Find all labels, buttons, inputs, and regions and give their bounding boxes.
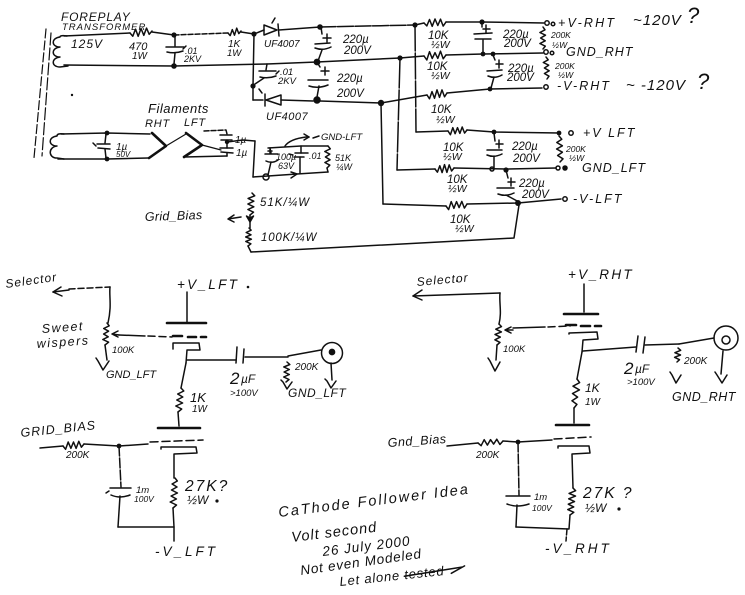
svg-text:2KV: 2KV: [183, 54, 202, 64]
node junction: [481, 52, 496, 57]
label +V_LFT: [177, 277, 239, 292]
svg-text:27K ?: 27K ?: [582, 485, 634, 502]
triode V4 cathode: [558, 446, 590, 488]
diode D2 UF4007: [253, 89, 313, 106]
wire row5: [397, 169, 435, 170]
resistor 1K 1W: [228, 28, 241, 35]
terminal -V_RHT: [544, 85, 548, 89]
svg-text:200K: 200K: [683, 356, 709, 367]
svg-text:1W: 1W: [227, 48, 242, 59]
svg-text:-V-LFT: -V-LFT: [573, 192, 623, 206]
svg-text:200V: 200V: [503, 38, 532, 50]
svg-text:UF4007: UF4007: [264, 39, 300, 50]
wire plate supply left: [186, 292, 188, 322]
wire cap centre tap to bias chain: [227, 140, 255, 142]
label GND-LFT: [321, 132, 363, 143]
capacitor 100u 63V: [265, 148, 278, 175]
resistor 51K 1/4W bias divider: [248, 193, 255, 215]
wire: [447, 88, 542, 93]
capacitor C3 .01 2KV lower: [255, 64, 279, 84]
capacitor C8 220u 200V row5: [497, 170, 519, 202]
label +V_RHT: [568, 267, 634, 282]
capacitor 1u heater top: [220, 135, 232, 148]
svg-text:½W: ½W: [431, 70, 451, 82]
triode V1 cathode: [173, 343, 200, 363]
label -V_LFT: [155, 544, 218, 559]
svg-text:½W: ½W: [187, 493, 210, 507]
resistor 200K 1/2W bleeder row1: [540, 27, 546, 49]
heater RHT chevron: [149, 133, 166, 158]
wire cluster bottom rail: [253, 172, 328, 178]
svg-text:100V: 100V: [532, 503, 553, 513]
capacitor C5 270u 200V row1: [474, 22, 492, 52]
resistor 51K quarter W cluster: [325, 146, 331, 172]
heater LFT chevron: [184, 133, 202, 157]
wire: [446, 53, 543, 55]
svg-text:½W: ½W: [443, 151, 463, 163]
label GND_LFT: [106, 369, 157, 381]
note Not even Modeled: [299, 546, 422, 578]
wire cathode to 1K right: [577, 352, 582, 379]
potentiometer 100K right: [495, 324, 502, 345]
label -V-LFT: [573, 192, 623, 206]
capacitor C2 220u 200V: [315, 27, 331, 61]
svg-text:+V_RHT: +V_RHT: [568, 267, 634, 282]
ground symbol 200K left: [281, 380, 292, 389]
svg-text:200K: 200K: [550, 30, 571, 40]
svg-text:100K: 100K: [112, 345, 135, 356]
node junction: [105, 157, 110, 162]
wire -V stub right: [566, 529, 567, 541]
label 220u 200V: [511, 141, 541, 165]
svg-text:Grid_Bias: Grid_Bias: [145, 208, 203, 224]
wire row4: [416, 131, 448, 132]
label .01: [309, 151, 322, 161]
label 10K 1/2W: [447, 174, 469, 195]
resistor 27K cathode right: [568, 488, 576, 515]
wire heater bottom: [58, 158, 148, 159]
label +V-RHT: [558, 16, 616, 30]
label 100u 63V: [276, 152, 296, 171]
note Volt second: [291, 520, 379, 546]
triode V1 grid: [173, 336, 206, 337]
svg-text:1K: 1K: [190, 390, 207, 405]
svg-text:1m: 1m: [534, 492, 547, 503]
label GND_RHT: [566, 45, 634, 59]
wire 1K to lower plate: [178, 412, 179, 426]
label Sweet wispers: [36, 319, 90, 351]
svg-text:200V: 200V: [336, 88, 365, 100]
resistor 200K 1/2W bleeder row4: [557, 136, 563, 162]
transformer T1 primary winding 125V: [53, 36, 68, 67]
svg-text:GND_RHT: GND_RHT: [566, 45, 634, 59]
wire + arrowhead bias tap: [247, 215, 254, 228]
wire pot to ground right: [496, 345, 497, 360]
wire junction to 1m cap: [119, 446, 121, 487]
label 1m 100V right: [532, 492, 553, 513]
label -V_RHT: [545, 541, 612, 556]
terminal -V_LFT: [563, 197, 567, 201]
capacitor 1u 50V filament: [93, 134, 110, 158]
triode V1 plate: [167, 322, 206, 325]
wire wiper to grid: [119, 335, 172, 337]
capacitor 1u heater bottom: [220, 148, 233, 156]
node junction: [488, 87, 493, 92]
wire cathode output left: [187, 359, 236, 361]
label GND_RHT output: [672, 390, 737, 404]
wire: [467, 130, 559, 133]
wire wiper to grid right: [513, 326, 570, 328]
node junction big: [378, 100, 384, 106]
triode V3 cathode: [569, 332, 598, 352]
wire: [320, 25, 415, 27]
svg-text:GND_LFT: GND_LFT: [106, 369, 157, 381]
svg-text:+V_LFT: +V_LFT: [177, 277, 239, 292]
svg-text:.01: .01: [309, 151, 322, 161]
wire: [467, 199, 561, 204]
label 1K 1W right: [585, 381, 602, 408]
wire: [454, 168, 556, 169]
svg-text:Filaments: Filaments: [148, 101, 209, 116]
svg-text:>100V: >100V: [230, 388, 259, 399]
specks: [71, 94, 458, 289]
node junction: [516, 440, 521, 445]
svg-text:½W: ½W: [431, 39, 451, 51]
node junction: [250, 83, 255, 88]
svg-text:UF4007: UF4007: [266, 111, 309, 123]
svg-text:½W: ½W: [455, 223, 475, 235]
label .01 2KV: [277, 67, 298, 87]
wire plate supply right: [583, 284, 585, 312]
svg-text:220µ: 220µ: [511, 141, 538, 153]
wire grid bias right: [447, 443, 478, 446]
wire to decoupling caps: [204, 130, 227, 134]
svg-text:¼W: ¼W: [336, 162, 354, 172]
svg-text:100K: 100K: [503, 344, 526, 355]
svg-text:1W: 1W: [585, 397, 602, 408]
label 10K 1/2W: [450, 214, 475, 235]
label 200K: [294, 362, 320, 373]
svg-text:~120V: ~120V: [633, 12, 683, 29]
wire jack ground right: [715, 351, 727, 383]
resistor 100K 1/4W bias divider: [246, 228, 252, 252]
wire rail A top: [64, 33, 130, 36]
label 200K 1/2W: [554, 61, 575, 80]
wire to jack left: [288, 350, 321, 356]
resistor 200K 1/2W bleeder row2: [543, 57, 549, 79]
label GND_LFT: [582, 161, 646, 175]
svg-text:-V-RHT: -V-RHT: [557, 79, 611, 93]
svg-text:200V: 200V: [343, 45, 372, 57]
svg-text:?: ?: [697, 69, 710, 94]
node junction bus top: [412, 22, 417, 27]
node junction: [503, 167, 508, 172]
svg-text:-V_RHT: -V_RHT: [545, 541, 612, 556]
wire row3: [381, 95, 427, 103]
svg-text:½W: ½W: [585, 501, 608, 515]
svg-text:220µ: 220µ: [336, 73, 363, 85]
label 1m 100V: [134, 485, 155, 504]
svg-text:100V: 100V: [134, 494, 155, 504]
capacitor .01 cluster: [289, 146, 308, 173]
svg-text:200V: 200V: [521, 189, 550, 201]
wire row6: [383, 204, 446, 206]
label 1K 1W: [190, 390, 209, 415]
svg-text:+V LFT: +V LFT: [583, 126, 636, 140]
resistor R 10K half W row3: [427, 90, 447, 99]
wire vertical GND feed: [397, 58, 400, 170]
label 100K/1/4W: [261, 232, 317, 244]
capacitor C4 220u 200V lower: [308, 62, 329, 97]
label Selector right: [416, 271, 469, 289]
svg-text:200V: 200V: [506, 72, 535, 84]
svg-text:125V: 125V: [71, 37, 103, 51]
terminal GND_RHT: [544, 50, 554, 55]
diode D1 UF4007: [254, 18, 320, 36]
note 26 July 2000: [321, 533, 412, 559]
wire grid: [84, 440, 203, 446]
label 220u 200V: [336, 73, 365, 100]
node junction: [317, 24, 323, 30]
triode V3 plate: [564, 313, 598, 316]
node junction big: [314, 59, 321, 66]
svg-text:GND_RHT: GND_RHT: [672, 390, 737, 404]
triode V4 plate: [556, 424, 589, 427]
resistor R 10K half W row6: [446, 201, 467, 209]
wire grid right: [503, 437, 591, 442]
ground symbol pot right: [488, 358, 500, 371]
transformer core lines: [34, 29, 51, 158]
svg-text:2: 2: [623, 359, 634, 378]
label 1u 50V: [116, 142, 131, 159]
svg-text:-V_LFT: -V_LFT: [155, 544, 218, 559]
svg-text:2: 2: [229, 369, 240, 388]
resistor 1K 1W cathode right: [572, 379, 580, 408]
terminal GND_LFT: [556, 166, 567, 170]
wire cathode output right: [583, 347, 636, 351]
transformer T1 FOREPLAY label: [61, 10, 146, 33]
note Let alone tested strikethrough: [339, 561, 466, 589]
wire selector arrow right: [413, 290, 500, 324]
wire -V stub left: [173, 527, 175, 541]
svg-text:2KV: 2KV: [277, 76, 298, 87]
label 100K right: [503, 344, 526, 355]
svg-text:~ -120V: ~ -120V: [626, 77, 687, 94]
label 220u 200V: [502, 29, 532, 50]
label 10K 1/2W: [428, 30, 451, 51]
note CaThode Follower Idea: [278, 482, 471, 521]
resistor 1K 1W cathode left: [176, 388, 184, 412]
node junction: [479, 19, 484, 24]
resistor R 10K half W row2: [424, 51, 446, 60]
capacitor 1m 100V right: [506, 496, 530, 527]
wire 1K to lower plate right: [573, 408, 575, 423]
label 1u: [235, 135, 247, 146]
label 2uF >100V: [229, 369, 259, 399]
jack RCA left: [322, 343, 343, 364]
node junction open: [314, 97, 320, 103]
triode V2 plate: [158, 427, 200, 430]
resistor R 10K half W row1: [424, 19, 446, 26]
wire row2: [400, 56, 424, 58]
node junction: [225, 140, 229, 144]
label 220u 200V: [506, 63, 535, 84]
svg-text:GND_LFT: GND_LFT: [582, 161, 646, 175]
resistor R 10K half W row4: [448, 127, 467, 135]
label 10K 1/2W: [443, 142, 465, 163]
svg-text:200V: 200V: [512, 153, 541, 165]
wire junction to 1m cap right: [518, 442, 519, 495]
label 10K 1/2W: [431, 104, 456, 126]
label +V LFT: [583, 126, 636, 140]
capacitor C1 .01 2KV: [166, 36, 186, 64]
capacitor C6 220u 200V row2: [487, 55, 503, 88]
label .01 2KV: [183, 46, 202, 64]
capacitor 1m 100V left: [106, 488, 131, 527]
label Selector left: [4, 270, 57, 291]
capacitor 2uF >100V right: [636, 336, 679, 353]
node junction: [397, 55, 402, 60]
label 27K? 1/2W right: [582, 485, 634, 515]
label 220u 200V: [518, 178, 550, 201]
label -V-RHT: [557, 79, 611, 93]
svg-text:50V: 50V: [116, 150, 131, 159]
wire cluster top rail: [268, 146, 328, 148]
wire: [152, 32, 174, 35]
wire arrow to GND-LFT: [285, 134, 319, 146]
wire bottom rail right: [516, 515, 570, 529]
label 2uF >100V right: [623, 359, 656, 388]
node junction: [171, 63, 177, 69]
resistor 200K output right: [675, 348, 681, 362]
svg-text:1K: 1K: [585, 381, 601, 395]
node junction: [492, 130, 562, 136]
wire to jack right: [679, 338, 714, 344]
wire bus vertical +V: [415, 25, 416, 132]
label 51K/1/4W: [260, 197, 310, 209]
node junction: [171, 32, 176, 37]
wire row1: [415, 23, 424, 25]
label UF4007: [266, 111, 309, 123]
svg-text:200K: 200K: [294, 362, 320, 373]
resistor 200K output left: [284, 362, 290, 382]
wire pot to ground: [105, 345, 107, 360]
svg-text:GND-LFT: GND-LFT: [321, 132, 363, 143]
node junction: [117, 444, 122, 449]
svg-text:TRANSFORMER: TRANSFORMER: [62, 22, 146, 33]
wire bottom rail left: [118, 508, 174, 527]
label 200K 1/2W: [565, 144, 586, 163]
triode V3 grid: [566, 325, 601, 326]
jack RCA right: [714, 326, 738, 350]
wire heater bottom to cap: [184, 156, 227, 157]
wire jack ground left: [325, 363, 336, 388]
svg-text:GND_LFT: GND_LFT: [288, 386, 347, 400]
label 10K 1/2W: [427, 61, 451, 82]
wire -V rail: [320, 101, 381, 103]
label UF4007: [264, 39, 300, 50]
svg-text:+V-RHT: +V-RHT: [558, 16, 616, 30]
label Gnd_Bias right: [387, 432, 447, 450]
label Filaments: [148, 101, 209, 116]
transformer T1 filament winding: [50, 134, 64, 159]
label 125V: [71, 37, 103, 51]
svg-text:½W: ½W: [448, 183, 468, 195]
svg-text:200K: 200K: [65, 450, 91, 461]
svg-text:µF: µF: [241, 372, 256, 386]
resistor 200K grid left: [63, 441, 84, 449]
wire: [174, 33, 228, 35]
pot wiper arrow: [112, 331, 119, 337]
svg-text:1W: 1W: [132, 51, 149, 62]
wire: [317, 58, 400, 62]
svg-text:1µ: 1µ: [236, 148, 248, 159]
wire rail B: [64, 62, 317, 66]
ground symbol pot left: [96, 358, 109, 370]
wire heater top: [61, 133, 150, 134]
svg-text:51K/¼W: 51K/¼W: [260, 197, 310, 209]
label Grid_Bias arrow: [145, 208, 241, 224]
label 200K grid right: [475, 450, 501, 461]
label 470 1W: [129, 41, 149, 62]
svg-text:LFT: LFT: [184, 117, 206, 129]
wire grid bias left: [40, 446, 63, 448]
terminal +V_LFT: [569, 131, 573, 135]
label 27K? 1/2W: [184, 478, 229, 507]
pot wiper arrow right: [505, 327, 513, 333]
label RHT: [145, 118, 170, 130]
wire bias chain vertical: [253, 141, 255, 177]
svg-text:100K/¼W: 100K/¼W: [261, 232, 317, 244]
potentiometer 100K left: [103, 323, 109, 345]
label 200K 1/2W: [550, 30, 571, 50]
svg-text:200K: 200K: [475, 450, 501, 461]
svg-text:½W: ½W: [436, 114, 456, 126]
wire grid bias feed line: [251, 205, 519, 252]
wire: [446, 21, 482, 23]
label 1u: [236, 148, 248, 159]
wire: [241, 32, 254, 34]
resistor 27K cathode left: [170, 478, 177, 508]
label 220u 200V: [342, 34, 372, 57]
wire cathode to 1K: [181, 363, 186, 388]
label 200K: [65, 450, 91, 461]
label LFT: [184, 117, 206, 129]
node junction: [515, 200, 521, 206]
node junction open: [263, 174, 269, 180]
wire heater diagonals: [166, 134, 221, 150]
triode V2 cathode: [161, 447, 197, 478]
node junction: [251, 31, 256, 36]
terminal +V_RHT: [545, 21, 555, 26]
resistor 200K grid right: [478, 439, 503, 446]
resistor R 10K half W row5: [435, 165, 454, 173]
svg-text:RHT: RHT: [145, 118, 170, 130]
label 200K right: [683, 356, 709, 367]
label GND_LFT output: [288, 386, 347, 400]
wire vertical from node to D2: [253, 34, 254, 100]
ground symbol 200K right: [670, 372, 681, 383]
wire vertical -V feed: [381, 103, 383, 204]
svg-text:63V: 63V: [278, 161, 295, 171]
capacitor 2uF >100V left: [236, 347, 288, 363]
label 51K 1/4W: [335, 153, 354, 172]
resistor 470 1W: [130, 28, 152, 36]
wire selector arrow left: [53, 287, 110, 323]
label ~ -120V ?: [626, 69, 710, 94]
label ~120V ?: [633, 3, 700, 29]
label GRID_BIAS: [20, 418, 97, 440]
